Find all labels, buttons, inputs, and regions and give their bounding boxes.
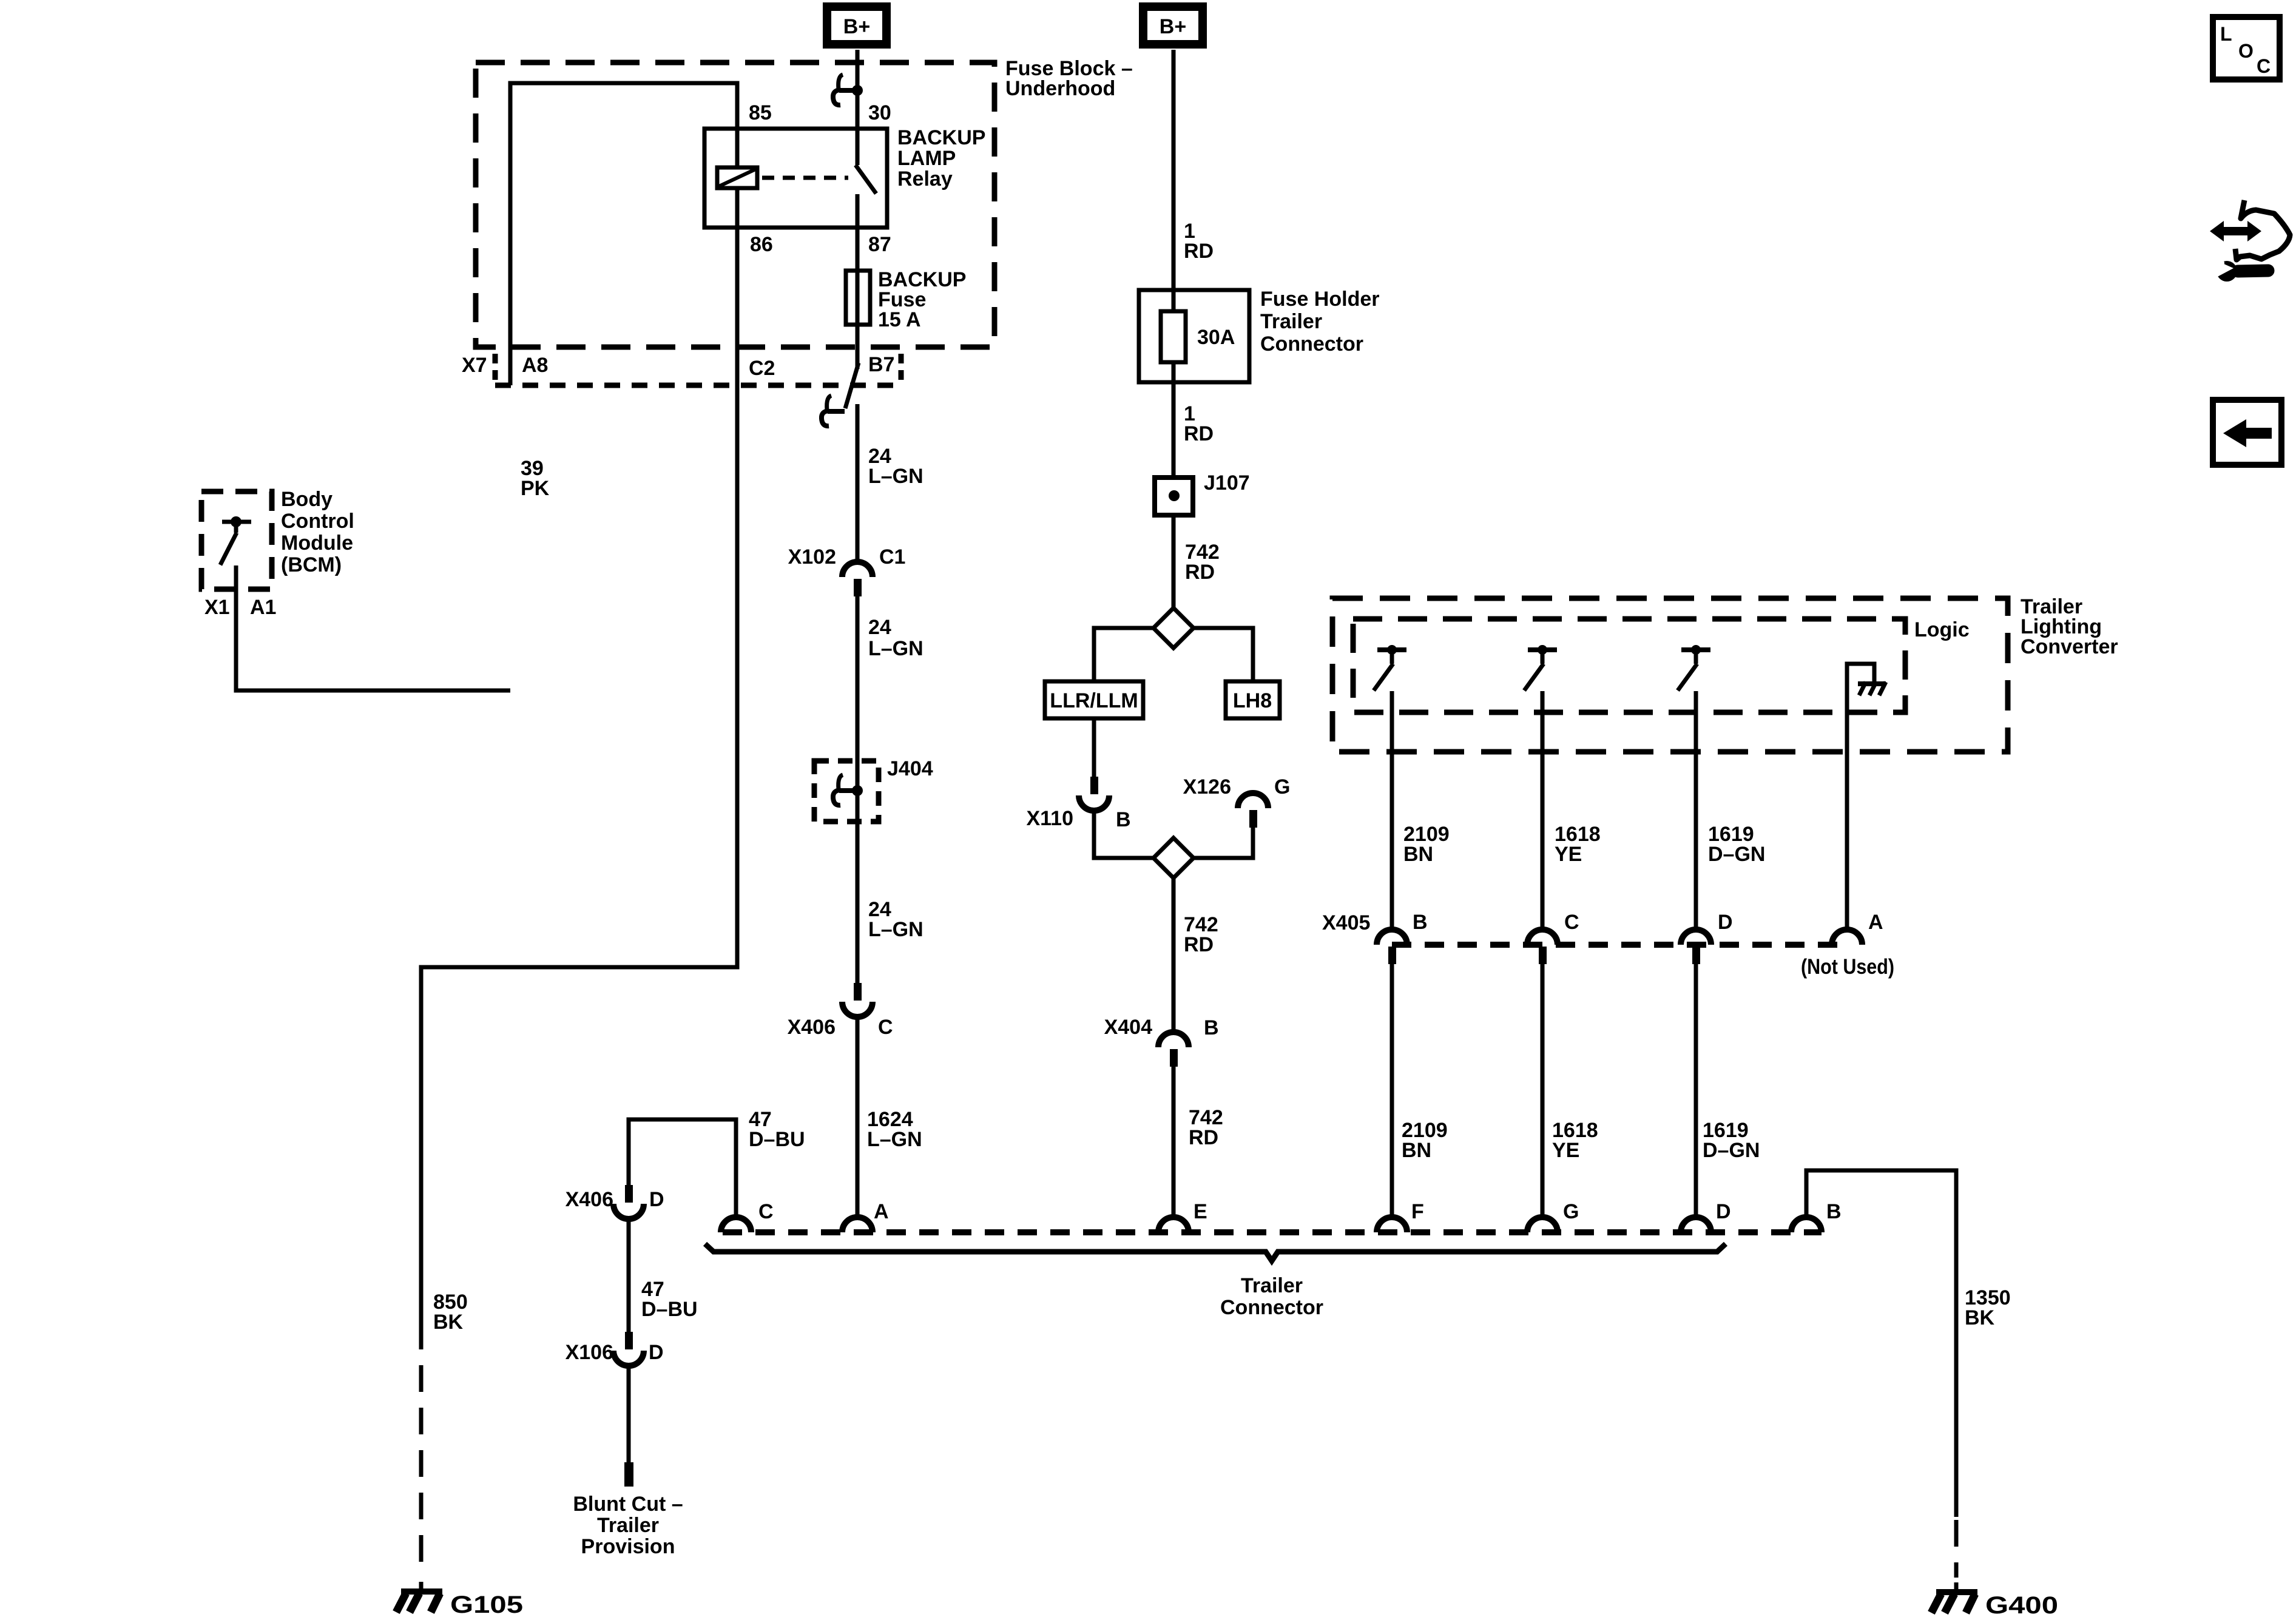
- splice diamond lower: [1153, 838, 1194, 878]
- svg-text:D: D: [649, 1341, 664, 1364]
- label X106: [566, 1341, 613, 1364]
- svg-text:YE: YE: [1555, 843, 1582, 866]
- label E (trailer): [1194, 1200, 1207, 1223]
- svg-text:B7: B7: [868, 353, 894, 376]
- svg-text:X102: X102: [788, 545, 836, 569]
- wire trailer pin C to X406-D: [629, 1119, 736, 1217]
- label C2: [749, 357, 775, 380]
- Body Control Module dashed box: [201, 491, 272, 589]
- splice diamond upper: [1153, 608, 1194, 648]
- svg-text:C: C: [758, 1200, 774, 1223]
- trailer connector pin C arc: [721, 1217, 751, 1232]
- label Logic: [1914, 618, 1970, 641]
- svg-text:D: D: [1718, 911, 1733, 934]
- wire diamond to LLR/LLM: [1094, 628, 1153, 681]
- svg-text:LAMP: LAMP: [897, 147, 956, 170]
- wire converter to X405 D: [1694, 691, 1698, 930]
- BCM switch: [220, 516, 251, 565]
- svg-text:(Not Used): (Not Used): [1801, 955, 1894, 979]
- trailer connector brace: [705, 1244, 1726, 1261]
- junction dot at pin 30 feed: [852, 85, 863, 96]
- svg-text:RD: RD: [1184, 240, 1214, 263]
- label 1624 L-GN: [867, 1108, 922, 1151]
- relay coil: [717, 167, 757, 188]
- wire trailer pin B to 1350 BK: [1806, 1170, 1956, 1517]
- svg-text:D–BU: D–BU: [641, 1298, 698, 1321]
- svg-text:C1: C1: [879, 545, 905, 569]
- svg-text:L–GN: L–GN: [868, 637, 923, 660]
- wire X405-B to trailer pin F: [1390, 964, 1394, 1217]
- label 850 BK: [433, 1291, 468, 1334]
- svg-text:BK: BK: [433, 1311, 464, 1334]
- wire 850 BK dashed tail: [419, 1323, 424, 1592]
- svg-text:Body: Body: [281, 488, 333, 511]
- trailer connector pin G arc: [1527, 1217, 1558, 1232]
- wire X406-C to trailer pin A: [856, 1017, 860, 1217]
- wire 1350 BK dashed tail: [1954, 1520, 1959, 1592]
- label 30A: [1197, 326, 1235, 349]
- relay coil wire pin 86: [735, 188, 740, 228]
- label 86: [750, 233, 773, 256]
- label B7: [868, 353, 894, 376]
- svg-text:C2: C2: [749, 357, 775, 380]
- svg-text:G: G: [1563, 1200, 1579, 1223]
- relay coil wire pin 85: [735, 129, 740, 167]
- label 39 PK: [521, 457, 550, 500]
- label 1618 YE lower: [1552, 1119, 1598, 1162]
- wire LLR/LLM to X110: [1092, 718, 1096, 777]
- label 1619 D-GN lower: [1703, 1119, 1760, 1162]
- connector X110 B: [1079, 777, 1109, 811]
- svg-text:L–GN: L–GN: [868, 465, 923, 488]
- wire C2 down to ground branch: [421, 228, 737, 1323]
- svg-text:X110: X110: [1026, 807, 1073, 830]
- blunt cut terminal: [624, 1462, 633, 1487]
- fuse BACKUP 15A: [846, 271, 870, 325]
- splice J404 dashed box: [814, 761, 879, 822]
- trailer connector pin F arc: [1377, 1217, 1407, 1232]
- label Fuse Block - Underhood: [1005, 57, 1133, 100]
- wire B+ to fuse holder: [1172, 50, 1176, 311]
- svg-text:O: O: [2238, 40, 2254, 62]
- fuse 30A element: [1161, 311, 1186, 362]
- label 85: [749, 101, 772, 124]
- label Blunt Cut - Trailer Provision: [573, 1493, 683, 1558]
- ground G400: [1931, 1592, 1977, 1613]
- icon back arrow box: [2213, 400, 2281, 465]
- converter switch 2: [1524, 645, 1557, 690]
- trailer connector pin D arc: [1681, 1217, 1711, 1232]
- svg-text:RD: RD: [1184, 933, 1214, 956]
- label D (X106): [649, 1341, 664, 1364]
- svg-text:A8: A8: [522, 354, 548, 377]
- svg-text:Provision: Provision: [581, 1535, 675, 1558]
- label A8: [522, 354, 548, 377]
- label B (X405): [1413, 911, 1428, 934]
- label BACKUP LAMP Relay: [897, 126, 985, 191]
- connector X405 A (not used): [1832, 930, 1862, 945]
- converter switch 1: [1374, 645, 1406, 690]
- label B (X110): [1116, 808, 1131, 831]
- wire B7 to X102: [856, 404, 860, 562]
- label C1: [879, 545, 905, 569]
- label 24 L-GN upper: [868, 445, 923, 488]
- svg-text:B: B: [1116, 808, 1131, 831]
- wire diamond to LH8: [1194, 628, 1253, 681]
- label 742 RD mid: [1184, 913, 1218, 956]
- connector X405 D: [1681, 930, 1711, 964]
- label BACKUP Fuse 15 A: [878, 268, 966, 331]
- svg-text:Relay: Relay: [897, 167, 953, 191]
- label X405: [1322, 911, 1370, 934]
- label 1350 BK: [1965, 1286, 2011, 1329]
- label Body Control Module (BCM): [281, 488, 354, 576]
- clip symbol at B+ junction: [833, 75, 856, 105]
- label C (trailer): [758, 1200, 774, 1223]
- wire X404 to trailer pin E: [1172, 1066, 1176, 1217]
- X7 row separator left: [493, 354, 498, 382]
- clip symbol at B7: [822, 363, 859, 426]
- label G (trailer): [1563, 1200, 1579, 1223]
- label 742 RD lower: [1189, 1106, 1223, 1149]
- label C (X405): [1564, 911, 1579, 934]
- wire J107 to splice diamond: [1172, 518, 1176, 608]
- svg-text:C: C: [2257, 55, 2271, 77]
- connector X126 G: [1238, 793, 1268, 828]
- svg-text:X405: X405: [1322, 911, 1370, 934]
- svg-text:J107: J107: [1204, 471, 1250, 495]
- wire lower diamond to X404: [1172, 878, 1176, 1032]
- trailer connector pin B arc: [1791, 1217, 1822, 1232]
- label 1619 D-GN upper: [1708, 823, 1765, 866]
- label X7: [462, 354, 487, 377]
- svg-text:30: 30: [868, 101, 891, 124]
- svg-text:85: 85: [749, 101, 772, 124]
- trailer lighting converter dashed box: [1332, 598, 2008, 752]
- wire X102 to J404: [856, 596, 860, 983]
- svg-text:G: G: [1274, 775, 1290, 798]
- svg-text:B: B: [1826, 1200, 1842, 1223]
- connector row X405 dashed line: [1392, 942, 1846, 948]
- svg-text:15 A: 15 A: [878, 308, 921, 331]
- svg-text:BN: BN: [1403, 843, 1433, 866]
- svg-text:D–BU: D–BU: [749, 1128, 805, 1151]
- splice J107 box: [1155, 478, 1193, 515]
- svg-text:B: B: [1413, 911, 1428, 934]
- svg-text:C: C: [1564, 911, 1579, 934]
- svg-text:L–GN: L–GN: [867, 1128, 922, 1151]
- svg-text:J404: J404: [887, 757, 933, 780]
- svg-text:86: 86: [750, 233, 773, 256]
- label (Not Used): [1801, 955, 1894, 979]
- label X404: [1104, 1016, 1152, 1039]
- svg-text:X406: X406: [566, 1188, 613, 1211]
- label 24 L-GN mid: [868, 616, 923, 660]
- label J404: [887, 757, 933, 780]
- svg-text:Trailer: Trailer: [1241, 1274, 1303, 1297]
- label G105: [450, 1592, 523, 1617]
- svg-text:A: A: [1868, 911, 1883, 934]
- wire BCM A1 to fuse block A8 39 PK: [236, 565, 510, 690]
- svg-text:24: 24: [868, 616, 891, 639]
- svg-text:D–GN: D–GN: [1708, 843, 1765, 866]
- svg-text:Connector: Connector: [1220, 1296, 1323, 1319]
- svg-text:X404: X404: [1104, 1016, 1152, 1039]
- svg-text:PK: PK: [521, 477, 550, 500]
- svg-text:F: F: [1411, 1200, 1424, 1223]
- label 2109 BN upper: [1403, 823, 1450, 866]
- label 30: [868, 101, 891, 124]
- clip symbol J404: [833, 775, 856, 805]
- label D (trailer): [1716, 1200, 1731, 1223]
- connector X405 C: [1527, 930, 1558, 964]
- connector X404 B: [1158, 1032, 1189, 1067]
- label X102: [788, 545, 836, 569]
- svg-text:X7: X7: [462, 354, 487, 377]
- svg-text:A: A: [874, 1200, 889, 1223]
- label 1 RD upper: [1184, 220, 1214, 263]
- wire converter to X405 C: [1541, 691, 1545, 930]
- svg-text:Fuse Holder: Fuse Holder: [1260, 288, 1379, 311]
- svg-text:Converter: Converter: [2021, 635, 2118, 658]
- svg-text:(BCM): (BCM): [281, 553, 342, 576]
- svg-text:C: C: [878, 1016, 893, 1039]
- relay BACKUP LAMP box: [704, 129, 887, 228]
- label 742 RD upper: [1185, 541, 1220, 584]
- svg-text:RD: RD: [1185, 561, 1215, 584]
- label X1: [204, 596, 230, 619]
- svg-text:LLR/LLM: LLR/LLM: [1050, 689, 1138, 712]
- svg-text:E: E: [1194, 1200, 1207, 1223]
- wire A8 to relay pin 85: [510, 83, 737, 385]
- label G400: [1985, 1592, 2058, 1617]
- svg-text:Underhood: Underhood: [1005, 77, 1115, 100]
- svg-text:BN: BN: [1402, 1139, 1431, 1162]
- converter switch 3: [1678, 645, 1710, 690]
- svg-text:B+: B+: [1160, 15, 1186, 38]
- label 1 RD lower: [1184, 402, 1214, 445]
- svg-text:D–GN: D–GN: [1703, 1139, 1760, 1162]
- label C (X406): [878, 1016, 893, 1039]
- svg-text:X406: X406: [788, 1016, 836, 1039]
- label A (trailer): [874, 1200, 889, 1223]
- logic dashed box: [1353, 619, 1905, 712]
- svg-text:Blunt Cut –: Blunt Cut –: [573, 1493, 683, 1516]
- connector X406 D: [613, 1185, 644, 1219]
- wire B+ to relay pin 30: [856, 50, 860, 129]
- wire X106-D to blunt cut: [627, 1366, 631, 1463]
- trailer connector dashed line: [723, 1229, 1822, 1235]
- label X406 (D): [566, 1188, 613, 1211]
- svg-text:Connector: Connector: [1260, 333, 1363, 356]
- svg-text:X106: X106: [566, 1341, 613, 1364]
- wire fuse holder to J107: [1172, 362, 1176, 475]
- connector X405 B: [1377, 930, 1407, 964]
- label 2109 BN lower: [1402, 1119, 1448, 1162]
- label 1618 YE upper: [1555, 823, 1601, 866]
- label X406 (C): [788, 1016, 836, 1039]
- wire fuse to B7: [856, 325, 860, 369]
- trailer connector pin A arc: [842, 1217, 873, 1232]
- connector X106 D: [613, 1332, 644, 1366]
- svg-text:X1: X1: [204, 596, 230, 619]
- power feed B+ (fuse block): [827, 7, 886, 44]
- svg-text:G400: G400: [1985, 1592, 2058, 1617]
- icon connector view arrow and wrench: [2210, 200, 2290, 282]
- label Fuse Holder Trailer Connector: [1260, 288, 1379, 356]
- fuse holder box: [1139, 290, 1249, 382]
- svg-text:30A: 30A: [1197, 326, 1235, 349]
- svg-text:B: B: [1204, 1016, 1219, 1039]
- label G (X126): [1274, 775, 1290, 798]
- svg-text:87: 87: [868, 233, 891, 256]
- svg-text:D: D: [649, 1188, 664, 1211]
- svg-text:BK: BK: [1965, 1306, 1995, 1329]
- label B (trailer): [1826, 1200, 1842, 1223]
- fuse block underhood dashed box: [476, 62, 994, 347]
- label F (trailer): [1411, 1200, 1424, 1223]
- label 24 L-GN lower: [868, 898, 923, 941]
- svg-text:RD: RD: [1184, 422, 1214, 445]
- label X126: [1183, 775, 1231, 798]
- label B (X404): [1204, 1016, 1219, 1039]
- svg-text:Logic: Logic: [1914, 618, 1970, 641]
- X7 row separator right: [899, 354, 904, 382]
- label A (X405): [1868, 911, 1883, 934]
- wire X406-D to X106-D: [627, 1219, 631, 1332]
- svg-text:B+: B+: [843, 15, 870, 38]
- label X110: [1026, 807, 1073, 830]
- trailer connector pin E arc: [1158, 1217, 1189, 1232]
- label A1: [250, 596, 276, 619]
- wire X405-C to trailer pin G: [1541, 964, 1545, 1217]
- relay switch blade: [856, 129, 876, 228]
- svg-text:Control: Control: [281, 510, 354, 533]
- converter internal ground: [1847, 664, 1886, 930]
- wire X110 to lower diamond: [1094, 811, 1153, 858]
- svg-text:RD: RD: [1189, 1126, 1218, 1149]
- svg-text:L–GN: L–GN: [868, 918, 923, 941]
- ground G105: [396, 1592, 442, 1612]
- svg-text:LH8: LH8: [1233, 689, 1272, 712]
- label Trailer Connector: [1220, 1274, 1323, 1319]
- power feed B+ (trailer fuse holder): [1143, 7, 1203, 44]
- svg-text:Module: Module: [281, 532, 353, 555]
- svg-text:D: D: [1716, 1200, 1731, 1223]
- junction dot J107: [1169, 490, 1180, 501]
- connector X102 C1: [842, 562, 873, 596]
- connector X406 C: [842, 983, 873, 1017]
- relay dashed actuator link: [762, 176, 848, 180]
- label 47 D-BU lower: [641, 1278, 698, 1321]
- svg-text:X126: X126: [1183, 775, 1231, 798]
- svg-text:Trailer: Trailer: [597, 1514, 659, 1537]
- lamp block LH8: [1226, 681, 1280, 718]
- wire X126 to lower diamond: [1194, 827, 1253, 858]
- label D (X406): [649, 1188, 664, 1211]
- svg-text:L: L: [2220, 23, 2232, 45]
- connector row X7 dotted line: [495, 383, 902, 388]
- icon LOC box: [2213, 17, 2280, 79]
- label D (X405): [1718, 911, 1733, 934]
- label 87: [868, 233, 891, 256]
- wire X405-D to trailer pin D: [1694, 964, 1698, 1217]
- label J107: [1204, 471, 1250, 495]
- svg-text:BACKUP: BACKUP: [897, 126, 985, 149]
- svg-text:A1: A1: [250, 596, 276, 619]
- svg-text:G105: G105: [450, 1592, 523, 1617]
- lamp block LLR/LLM: [1045, 681, 1143, 718]
- junction dot J404: [852, 785, 863, 796]
- wire converter to X405 B: [1390, 691, 1394, 930]
- label Trailer Lighting Converter: [2021, 595, 2118, 658]
- svg-text:Trailer: Trailer: [1260, 310, 1322, 333]
- label 47 D-BU upper: [749, 1108, 805, 1151]
- svg-text:YE: YE: [1552, 1139, 1579, 1162]
- wire relay 87 to fuse: [856, 228, 860, 271]
